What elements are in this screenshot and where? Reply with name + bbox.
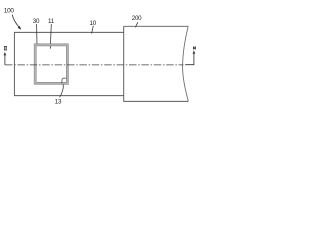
- svg-text:100: 100: [4, 8, 15, 15]
- corner detail 13: [62, 78, 67, 83]
- leader for 13: [60, 84, 64, 97]
- left section marker II: [4, 55, 6, 65]
- svg-text:13: 13: [55, 98, 62, 105]
- leader arrow for 100: [12, 15, 19, 28]
- svg-text:30: 30: [33, 18, 40, 25]
- right section marker II: [185, 54, 194, 65]
- section line II-II (dash-dot centerline): [5, 64, 183, 66]
- frame 30 (thick gray square): [35, 45, 67, 84]
- leader for 11: [50, 24, 51, 49]
- svg-text:200: 200: [132, 15, 142, 22]
- wavy break line of 200: [183, 26, 189, 101]
- leader tick for 10: [92, 26, 94, 34]
- rectangle 10 (left body): [14, 32, 123, 95]
- leader for 30: [36, 24, 38, 45]
- svg-text:11: 11: [48, 18, 55, 25]
- leader tick for 200: [135, 22, 137, 27]
- body 200 (right, broken edge): [124, 26, 189, 101]
